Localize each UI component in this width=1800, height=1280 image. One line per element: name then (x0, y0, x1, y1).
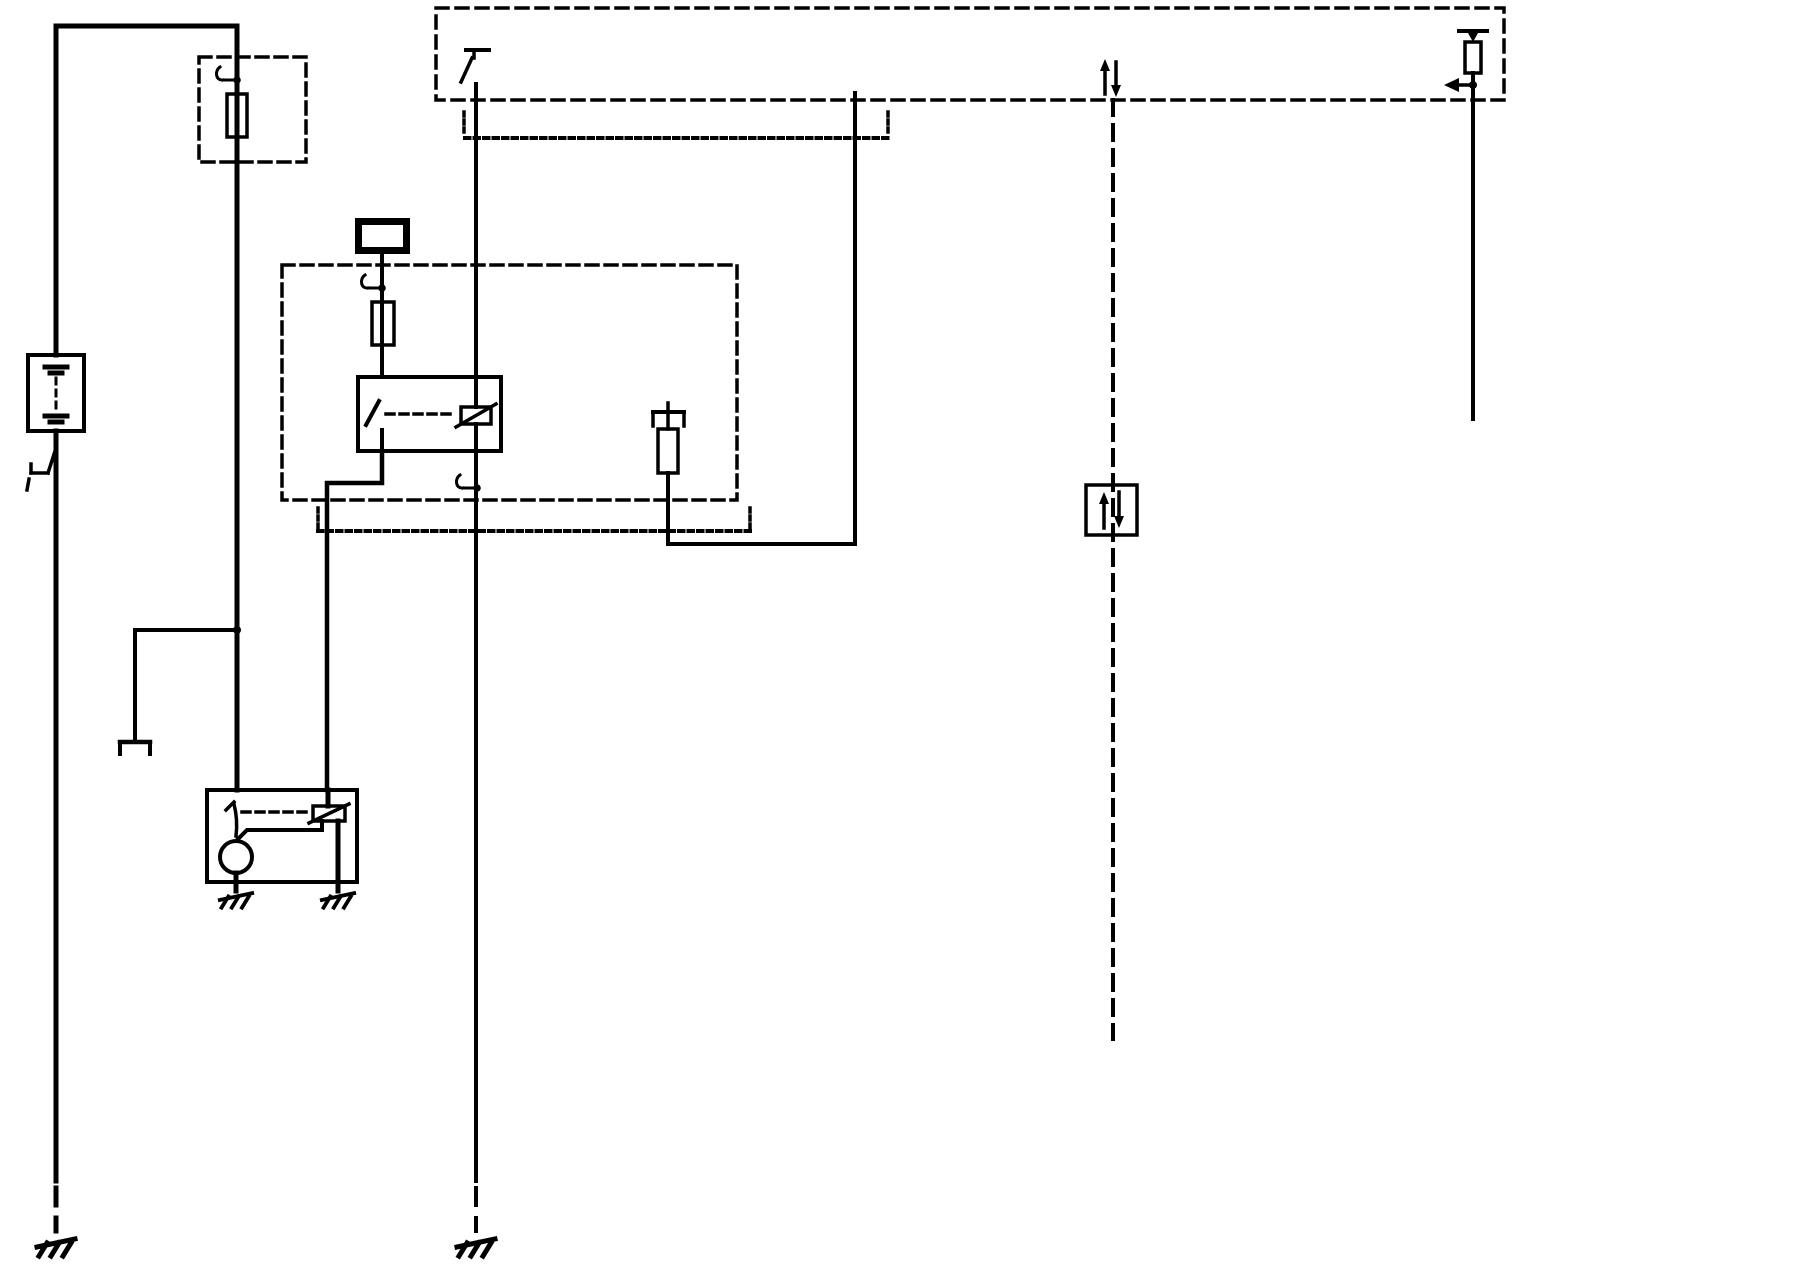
ground G122 (457, 1239, 495, 1256)
battery C1 (28, 355, 84, 431)
wire X1 into M64 (326, 790, 331, 806)
wire battery negative to G103 (54, 431, 59, 1181)
fuse F5UA (658, 429, 678, 473)
wire F5UA to IGN feed (668, 93, 855, 544)
fuse block X50A box (282, 265, 737, 500)
fuse F125UA (372, 302, 394, 345)
KR27 coil (461, 407, 491, 424)
ground G103 (37, 1239, 75, 1256)
wire branch to power distribution (233, 626, 241, 634)
tap X50D (216, 67, 240, 84)
K20 resistor and P/N (1459, 29, 1487, 33)
wire 625 YE/BK (474, 84, 478, 407)
KR27 dashed link (386, 412, 454, 416)
M64 switch (226, 802, 234, 810)
relay KR27 box (358, 377, 501, 451)
connector rail X1 (465, 136, 888, 140)
tap F125UA (361, 275, 385, 292)
top box K20 dashed (436, 8, 1504, 100)
top box switch (466, 48, 489, 52)
wire 2650 BK to G122 (474, 529, 478, 1181)
wire battery feed top (56, 26, 237, 355)
wire B+ to fuse (380, 254, 384, 377)
wire 87 to X3-5 and 6 YE to M64 (327, 451, 382, 790)
updown arrows top (1103, 70, 1107, 94)
center dashed line (1111, 100, 1115, 1039)
motor M (220, 841, 252, 873)
M64 inner wires (238, 821, 322, 839)
KR74 contact bracket (666, 403, 670, 412)
starter motor M64 box (207, 790, 357, 882)
updown arrows box mid (1086, 485, 1137, 535)
B+ box 1 (359, 222, 407, 251)
M64 dashed link (242, 810, 308, 814)
wire 237 vertical (to M64) (235, 26, 240, 790)
M64 solenoid coil (313, 806, 345, 821)
KR27 switch blade (366, 401, 379, 425)
tap pin 86 (456, 475, 480, 492)
power distribution terminator (120, 740, 150, 745)
tap below battery (48, 448, 56, 473)
fuse F6UB (227, 94, 247, 137)
M64 grounds (220, 893, 252, 907)
connector rail X3 (318, 529, 750, 533)
fuse block X50D box (199, 57, 306, 162)
